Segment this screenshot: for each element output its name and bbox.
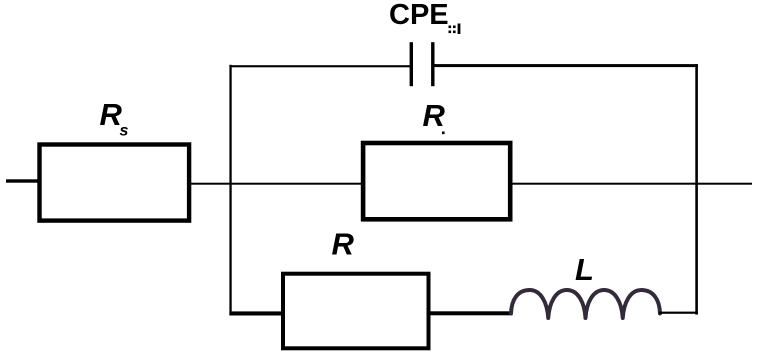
capacitor CPE (right plate) (431, 42, 434, 86)
wire: left terminal stub (6, 179, 40, 182)
svg-text:R: R (423, 98, 446, 133)
label R (middle) subscript dot (442, 132, 445, 135)
wire: right vertical bus (695, 64, 698, 314)
resistor Rs (40, 145, 190, 221)
wire: top branch right segment (434, 64, 698, 67)
svg-text:CPE: CPE (389, 0, 449, 31)
wire: bottom branch left segment (229, 311, 283, 315)
label CPE subscript dl (pixel marks) (449, 24, 461, 35)
svg-text:s: s (120, 123, 129, 140)
capacitor CPE (left plate) (410, 42, 413, 86)
inductor L coil (511, 290, 660, 318)
resistor R (middle, charge-transfer) (363, 143, 510, 219)
wire: left vertical bus (229, 65, 231, 316)
svg-text:L: L (575, 252, 594, 287)
wire: bottom branch middle segment (resistor to inductor) (429, 311, 513, 315)
wire: inductor to right bus (659, 312, 698, 314)
wire: middle horizontal net (node between Rs and parallel branches, through to right lead) (189, 183, 752, 185)
svg-text:R: R (332, 227, 355, 262)
wire: top branch left segment (229, 65, 411, 67)
resistor R (bottom) (283, 274, 429, 349)
